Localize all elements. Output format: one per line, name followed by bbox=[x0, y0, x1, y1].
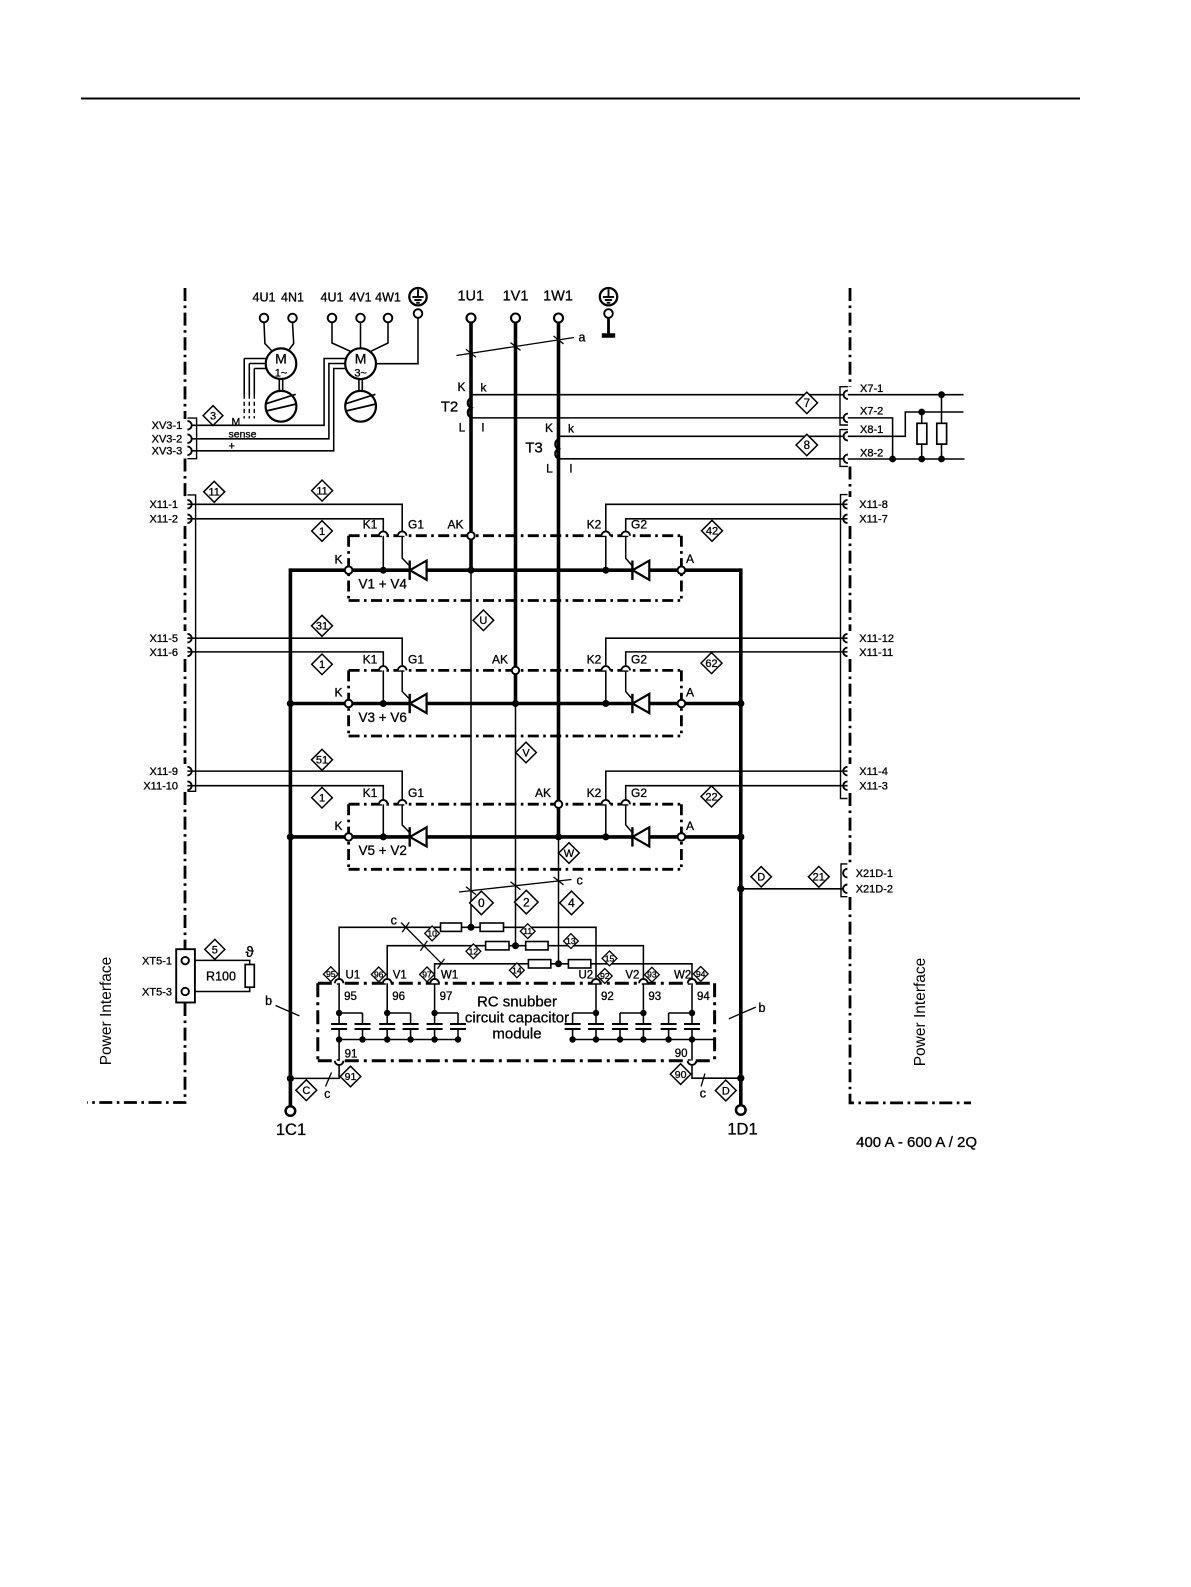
diamond 11 a bbox=[204, 481, 225, 502]
svg-text:62: 62 bbox=[705, 658, 717, 670]
svg-text:15: 15 bbox=[605, 953, 615, 963]
wire X11 to G1 (module 1) bbox=[187, 504, 402, 531]
diamond 22 bbox=[701, 786, 722, 807]
diamond 42 bbox=[702, 520, 723, 541]
junction X7-1 / R2 bbox=[938, 391, 945, 398]
svg-text:G1: G1 bbox=[408, 786, 424, 800]
snubber 90 lead bbox=[691, 1040, 693, 1061]
snubber resistor RU1 bbox=[441, 923, 462, 931]
svg-text:c: c bbox=[324, 1087, 330, 1101]
svg-text:92: 92 bbox=[600, 971, 610, 981]
svg-text:1U1: 1U1 bbox=[457, 289, 484, 305]
snubber phase lead V2 bbox=[642, 983, 644, 1013]
terminal V2 on snubber bbox=[639, 979, 648, 983]
svg-text:T2: T2 bbox=[441, 399, 459, 416]
wire 4U1 to motor M1 bbox=[264, 322, 273, 351]
terminal circle 4U1 fan2 bbox=[328, 314, 337, 323]
svg-text:L: L bbox=[459, 421, 466, 435]
cable marker c tick V bbox=[511, 882, 521, 890]
junction AK bus (module 3) bbox=[555, 833, 562, 840]
junction rail left x=458 bbox=[455, 1036, 461, 1042]
wire X7-2 down to X8-2 rail bbox=[848, 418, 893, 459]
terminal K1 (module 3) bbox=[379, 800, 388, 804]
junction K2 bus (module 3) bbox=[602, 833, 609, 840]
terminal X21D-1 bbox=[843, 869, 847, 878]
svg-text:1: 1 bbox=[319, 526, 325, 538]
cable marker c tick W bbox=[554, 877, 564, 885]
junction rail right x=643.4 bbox=[640, 1036, 646, 1042]
capacitor V2-a bbox=[635, 1013, 651, 1040]
diamond 51 bbox=[312, 749, 333, 770]
svg-text:13: 13 bbox=[566, 936, 576, 946]
junction K1 bus (module 1) bbox=[380, 567, 387, 574]
junction rail right x=692 bbox=[689, 1036, 695, 1042]
wire T2 k to X7-1 bbox=[471, 394, 848, 396]
svg-text:K1: K1 bbox=[363, 518, 378, 532]
terminal K (module 2) bbox=[345, 700, 353, 708]
wire K2 internal (module 3) bbox=[605, 804, 607, 837]
cable marker c tick U bbox=[466, 887, 476, 895]
junction right bus (module 3) bbox=[737, 833, 744, 840]
svg-text:94: 94 bbox=[696, 969, 706, 979]
X8 bracket bbox=[840, 430, 848, 467]
svg-text:4V1: 4V1 bbox=[349, 291, 371, 305]
diamond 95 marker bbox=[323, 967, 338, 982]
phase line V thin continuation bbox=[515, 704, 517, 946]
svg-text:l: l bbox=[482, 421, 485, 435]
thyristor module box 1 (V1 + V4) bbox=[349, 536, 682, 601]
svg-text:96: 96 bbox=[374, 969, 384, 979]
snubber phase lead W2 bbox=[691, 983, 693, 1013]
svg-text:C: C bbox=[302, 1085, 310, 1097]
motor-fan shaft link 1 bbox=[279, 379, 282, 391]
wire XV3-3 plus to motor M2 bbox=[187, 369, 345, 451]
junction left bus (module 3) bbox=[287, 833, 294, 840]
junction K1 bus (module 3) bbox=[380, 833, 387, 840]
snubber phase lead W1 bbox=[434, 983, 436, 1013]
wire X8-1 up to burden rail bbox=[848, 412, 964, 436]
snubber resistor RW2 bbox=[568, 960, 590, 968]
svg-text:a: a bbox=[579, 331, 586, 345]
svg-text:97: 97 bbox=[440, 991, 453, 1003]
svg-text:b: b bbox=[265, 994, 272, 1008]
burden resistor 2 leads bbox=[941, 395, 943, 459]
terminal W1 on snubber bbox=[430, 979, 439, 983]
capacitor pair top link V2 bbox=[620, 1012, 643, 1014]
svg-text:K2: K2 bbox=[587, 652, 602, 666]
svg-text:G2: G2 bbox=[631, 786, 647, 800]
terminal G2 (module 3) bbox=[621, 800, 630, 804]
fan 1 circle bbox=[266, 391, 297, 422]
diamond 93 marker bbox=[645, 967, 660, 982]
thyristor V right cathode bar (module 1) bbox=[631, 561, 633, 580]
svg-text:22: 22 bbox=[705, 791, 717, 803]
resistor R100 element bbox=[245, 965, 254, 988]
svg-text:X21D-1: X21D-1 bbox=[856, 868, 893, 880]
svg-text:K1: K1 bbox=[363, 652, 378, 666]
terminal A (module 1) bbox=[678, 566, 686, 574]
diamond 96 marker bbox=[371, 967, 386, 982]
svg-text:K: K bbox=[457, 380, 465, 394]
protective earth symbol (fan group) bbox=[409, 288, 426, 305]
svg-text:4U1: 4U1 bbox=[321, 291, 344, 305]
junction rail left x=410.6 bbox=[407, 1036, 413, 1042]
diamond 1 (module 1) bbox=[312, 521, 333, 542]
svg-text:X11-11: X11-11 bbox=[859, 647, 893, 659]
svg-text:X11-10: X11-10 bbox=[143, 781, 178, 793]
svg-text:90: 90 bbox=[675, 1048, 688, 1060]
terminal X21D-2 bbox=[843, 885, 847, 894]
row W wire bbox=[435, 964, 692, 983]
PE stub main bbox=[602, 318, 615, 336]
svg-text:c: c bbox=[700, 1087, 706, 1101]
svg-text:V1 + V4: V1 + V4 bbox=[359, 577, 408, 592]
svg-text:K1: K1 bbox=[363, 786, 378, 800]
svg-text:sense: sense bbox=[229, 428, 257, 440]
diamond 8 bbox=[796, 434, 817, 455]
wire PE to motor M2 bbox=[376, 318, 418, 364]
svg-text:V5 + V2: V5 + V2 bbox=[359, 843, 407, 858]
svg-text:1C1: 1C1 bbox=[276, 1121, 306, 1139]
svg-text:K: K bbox=[334, 686, 342, 700]
diamond 31 bbox=[312, 615, 333, 636]
terminal X11-11 bbox=[843, 648, 847, 657]
terminal G1 (module 2) bbox=[398, 666, 407, 670]
X11 left bracket bbox=[187, 495, 195, 791]
cable marker a line bbox=[457, 338, 575, 356]
diamond D (X21D wire) bbox=[751, 867, 771, 887]
svg-text:X11-1: X11-1 bbox=[149, 499, 178, 511]
wire 4W1 to motor M2 bbox=[370, 322, 388, 352]
thyristor V right triangle (module 1) bbox=[633, 561, 650, 580]
terminal X11-12 bbox=[843, 634, 847, 643]
cable marker c line (phases) bbox=[459, 880, 572, 893]
svg-text:G2: G2 bbox=[631, 652, 647, 666]
wire 90 to 1D1 bus bbox=[692, 1065, 741, 1078]
cable marker a tick 1V1 bbox=[511, 343, 521, 351]
svg-text:W1: W1 bbox=[441, 970, 458, 982]
wire X11 to K1 (module 3) bbox=[187, 786, 383, 800]
svg-text:l: l bbox=[570, 462, 573, 476]
fan 2 blades bbox=[346, 394, 376, 411]
svg-text:3: 3 bbox=[210, 410, 216, 422]
svg-text:5: 5 bbox=[212, 944, 218, 956]
terminal G1 (module 3) bbox=[398, 800, 407, 804]
diamond 0 bbox=[470, 891, 494, 915]
svg-text:1: 1 bbox=[319, 659, 325, 671]
svg-text:X11-6: X11-6 bbox=[149, 647, 178, 659]
svg-text:10: 10 bbox=[427, 928, 437, 938]
svg-text:11: 11 bbox=[316, 485, 327, 497]
svg-text:V2: V2 bbox=[625, 970, 639, 982]
terminal circle PE fan group bbox=[414, 309, 423, 318]
wire K1 internal (module 3) bbox=[382, 804, 384, 837]
svg-text:K2: K2 bbox=[587, 786, 602, 800]
terminal X11-10 bbox=[187, 781, 191, 790]
svg-text:11: 11 bbox=[523, 926, 532, 936]
thyristor V left triangle (module 2) bbox=[410, 694, 427, 713]
bus line module 3 bbox=[290, 835, 740, 839]
svg-text:51: 51 bbox=[316, 755, 328, 767]
svg-text:1: 1 bbox=[319, 793, 325, 805]
wire K2 internal (module 1) bbox=[605, 536, 607, 571]
terminal X11-3 bbox=[843, 781, 847, 790]
svg-text:A: A bbox=[686, 819, 694, 833]
gate lead G2 (module 3) bbox=[626, 804, 632, 832]
X11 right bracket bbox=[841, 495, 848, 799]
phase line 1W1 thick bbox=[557, 318, 561, 837]
gate lead G1 (module 1) bbox=[402, 536, 409, 566]
terminal X8-2 bbox=[844, 455, 848, 464]
terminal K (module 3) bbox=[345, 833, 353, 841]
junction K2 bus (module 1) bbox=[602, 567, 609, 574]
CT T2 winding bbox=[468, 398, 471, 417]
wire 4V1 to motor M2 bbox=[360, 322, 362, 348]
junction R1 / X8-2 rail bbox=[918, 456, 925, 463]
terminal V1 on snubber bbox=[383, 979, 392, 983]
svg-text:module: module bbox=[492, 1026, 541, 1043]
svg-text:X11-7: X11-7 bbox=[859, 514, 888, 526]
svg-text:42: 42 bbox=[706, 526, 718, 538]
svg-text:1V1: 1V1 bbox=[503, 289, 529, 305]
snubber phase lead U1 bbox=[338, 983, 340, 1013]
terminal circle 4N1 fan1 bbox=[288, 314, 297, 323]
snubber resistor RV1 bbox=[486, 942, 509, 950]
terminal K1 (module 1) bbox=[379, 531, 388, 535]
thyristor V left cathode bar (module 2) bbox=[409, 694, 411, 713]
terminal circle 4U1 fan1 bbox=[260, 314, 269, 323]
diamond 11 b bbox=[312, 480, 333, 501]
terminal K2 (module 1) bbox=[602, 531, 611, 535]
svg-text:W: W bbox=[564, 848, 575, 860]
terminal U1 on snubber bbox=[335, 979, 344, 983]
gate lead G2 (module 2) bbox=[626, 670, 632, 699]
thyristor V right cathode bar (module 3) bbox=[631, 827, 633, 846]
svg-text:Power Interface: Power Interface bbox=[912, 958, 929, 1067]
svg-text:3~: 3~ bbox=[354, 368, 367, 380]
svg-text:X7-1: X7-1 bbox=[860, 383, 883, 395]
snubber 91 lead bbox=[338, 1040, 340, 1061]
terminal X11-6 bbox=[187, 648, 191, 657]
svg-text:400 A - 600 A / 2Q: 400 A - 600 A / 2Q bbox=[856, 1134, 977, 1151]
junction row U phase bbox=[468, 924, 475, 931]
cable c slash left bbox=[326, 1073, 332, 1087]
capacitor U2-a bbox=[588, 1013, 604, 1040]
cable c diag tick row W bbox=[438, 959, 445, 969]
wire 91 to 1C1 bus bbox=[290, 1065, 339, 1078]
bus line module 2 bbox=[290, 702, 740, 706]
junction AK bus (module 2) bbox=[512, 700, 519, 707]
svg-text:A: A bbox=[686, 552, 694, 566]
terminal circle 1V1 bbox=[511, 314, 520, 323]
svg-text:G2: G2 bbox=[631, 518, 647, 532]
cable c diag tick row U bbox=[402, 922, 409, 932]
junction R2 / X8-2 rail bbox=[938, 456, 945, 463]
terminal X11-9 bbox=[187, 767, 191, 776]
capacitor pair top link V1 bbox=[387, 1012, 410, 1014]
wire X11 to K2 (module 1) bbox=[606, 504, 848, 531]
svg-text:90: 90 bbox=[675, 1069, 687, 1081]
svg-text:X8-2: X8-2 bbox=[860, 448, 883, 460]
svg-text:92: 92 bbox=[601, 991, 614, 1003]
svg-text:XT5-1: XT5-1 bbox=[142, 955, 172, 967]
diamond 92 marker bbox=[597, 969, 612, 984]
svg-text:93: 93 bbox=[648, 991, 661, 1003]
fan 1 blades bbox=[266, 394, 296, 411]
terminal XV3-3 bbox=[187, 447, 191, 456]
svg-text:b: b bbox=[759, 1001, 766, 1015]
phase line U thin continuation bbox=[470, 570, 472, 927]
cable marker a tick 1W1 bbox=[554, 336, 564, 344]
terminal circle PE main bbox=[604, 309, 613, 318]
svg-text:21: 21 bbox=[813, 872, 825, 884]
thyristor V left triangle (module 1) bbox=[410, 561, 427, 580]
wire K1 internal (module 2) bbox=[382, 670, 384, 703]
diamond 15 bbox=[602, 951, 617, 966]
burden resistor 1 leads bbox=[921, 412, 923, 459]
junction rail left x=434.6 bbox=[431, 1036, 437, 1042]
junction cap top V2 bbox=[640, 1010, 646, 1016]
CT T3 winding bbox=[555, 439, 558, 458]
svg-text:91: 91 bbox=[345, 1048, 358, 1060]
gate lead G1 (module 3) bbox=[402, 804, 409, 832]
svg-text:L: L bbox=[546, 462, 553, 476]
snubber resistor RV2 bbox=[526, 942, 548, 950]
X7 bracket bbox=[840, 387, 848, 425]
wire X11 to K1 (module 1) bbox=[187, 519, 383, 532]
capacitor W2-b bbox=[661, 1013, 677, 1040]
svg-text:V1: V1 bbox=[393, 970, 407, 982]
wire X8-2 rail bbox=[848, 458, 965, 460]
wire X11 to G2 (module 3) bbox=[626, 786, 848, 800]
junction AK bus (module 1) bbox=[468, 567, 475, 574]
power interface boundary right bbox=[850, 288, 971, 1103]
terminal AK (module 2) bbox=[512, 667, 519, 674]
snubber bottom rail left bbox=[339, 1039, 458, 1041]
svg-text:W2: W2 bbox=[674, 970, 691, 982]
terminal K2 (module 2) bbox=[602, 666, 611, 670]
svg-text:k: k bbox=[568, 422, 575, 436]
bus line module 1 bbox=[290, 568, 740, 572]
svg-text:circuit capacitor: circuit capacitor bbox=[465, 1010, 569, 1027]
thyristor V left cathode bar (module 3) bbox=[409, 827, 411, 846]
capacitor W2-a bbox=[684, 1013, 700, 1040]
junction cap top V1 bbox=[384, 1010, 390, 1016]
junction burden rail / R1 bbox=[918, 409, 925, 416]
thyristor V right triangle (module 2) bbox=[633, 694, 650, 713]
capacitor U2-b bbox=[565, 1013, 581, 1040]
XT5-3 circle bbox=[182, 988, 189, 995]
motor M1 circle bbox=[266, 348, 297, 379]
svg-text:G1: G1 bbox=[408, 652, 424, 666]
wire K1 internal (module 1) bbox=[382, 536, 384, 571]
wire X11 to G1 (module 3) bbox=[187, 771, 402, 800]
snubber resistor RU2 bbox=[480, 923, 503, 931]
snubber bottom rail right bbox=[573, 1039, 715, 1041]
XV3 bracket bbox=[187, 418, 196, 459]
svg-text:K2: K2 bbox=[587, 518, 602, 532]
terminal circle 1D1 bbox=[736, 1105, 746, 1115]
thyristor V left cathode bar (module 1) bbox=[409, 561, 411, 580]
svg-text:RC snubber: RC snubber bbox=[477, 994, 557, 1011]
svg-text:X11-4: X11-4 bbox=[859, 766, 888, 778]
wire X11 to G2 (module 1) bbox=[626, 519, 848, 532]
svg-text:95: 95 bbox=[326, 969, 336, 979]
wire X11 to G2 (module 2) bbox=[626, 652, 848, 666]
diamond 90 marker bbox=[670, 1064, 691, 1085]
terminal W2 on snubber bbox=[688, 979, 697, 983]
svg-text:97: 97 bbox=[422, 969, 432, 979]
diamond 10 bbox=[425, 926, 440, 941]
terminal G1 (module 1) bbox=[398, 531, 407, 535]
diamond 2 bbox=[515, 890, 539, 914]
svg-text:1~: 1~ bbox=[275, 368, 288, 380]
diamond 11 small bbox=[520, 924, 535, 939]
thyristor module box 3 (V5 + V2) bbox=[349, 804, 682, 869]
junction cap top W1 bbox=[431, 1010, 437, 1016]
svg-text:V3 + V6: V3 + V6 bbox=[359, 710, 407, 725]
svg-text:XT5-3: XT5-3 bbox=[142, 986, 172, 998]
svg-text:M: M bbox=[275, 351, 287, 367]
junction rail right x=596 bbox=[593, 1036, 599, 1042]
cable marker a tick 1U1 bbox=[466, 349, 476, 357]
svg-text:4: 4 bbox=[568, 896, 575, 910]
capacitor pair top link W2 bbox=[669, 1012, 692, 1014]
thyristor module box 2 (V3 + V6) bbox=[349, 670, 682, 736]
terminal K1 (module 2) bbox=[379, 666, 388, 670]
terminal XV3-2 bbox=[187, 435, 191, 444]
junction rail left x=362.5 bbox=[359, 1036, 365, 1042]
svg-text:31: 31 bbox=[316, 621, 328, 633]
terminal 90 bbox=[688, 1061, 697, 1065]
svg-text:AK: AK bbox=[492, 652, 508, 666]
capacitor W1-a bbox=[427, 1013, 443, 1040]
cable c slash right bbox=[701, 1074, 705, 1087]
junction cap top W2 bbox=[689, 1010, 695, 1016]
svg-text:X7-2: X7-2 bbox=[860, 406, 883, 418]
terminal circle 1U1 bbox=[467, 314, 476, 323]
row U wire bbox=[339, 927, 596, 983]
wire T3 k to X8-1 bbox=[559, 435, 848, 437]
svg-text:93: 93 bbox=[647, 970, 657, 980]
terminal circle 4W1 fan2 bbox=[384, 314, 393, 323]
terminal A (module 3) bbox=[678, 833, 686, 841]
terminal K (module 1) bbox=[345, 566, 353, 574]
diamond 4 bbox=[560, 891, 584, 915]
svg-text:X11-9: X11-9 bbox=[149, 766, 178, 778]
wire 4N1 to motor M1 bbox=[288, 322, 294, 351]
junction rail right x=620 bbox=[617, 1036, 623, 1042]
svg-text:4U1: 4U1 bbox=[253, 291, 276, 305]
terminal X11-4 bbox=[843, 767, 847, 776]
diamond 94 marker bbox=[693, 967, 708, 982]
terminal A (module 2) bbox=[678, 700, 686, 708]
svg-text:11: 11 bbox=[208, 487, 219, 499]
snubber resistor RW1 bbox=[528, 960, 550, 968]
junction rail left x=387.2 bbox=[384, 1036, 390, 1042]
terminal U2 on snubber bbox=[592, 979, 601, 983]
wire X11 to G1 (module 2) bbox=[187, 638, 402, 666]
svg-text:94: 94 bbox=[697, 991, 710, 1003]
capacitor W1-b bbox=[450, 1013, 466, 1040]
terminal AK (module 3) bbox=[555, 801, 562, 808]
capacitor U1-a bbox=[331, 1013, 347, 1040]
svg-text:AK: AK bbox=[535, 786, 551, 800]
terminal X7-1 bbox=[844, 390, 848, 399]
svg-text:G1: G1 bbox=[408, 518, 424, 532]
junction row W phase bbox=[555, 960, 562, 967]
wire X21D-2 to DC bus bbox=[741, 888, 848, 890]
